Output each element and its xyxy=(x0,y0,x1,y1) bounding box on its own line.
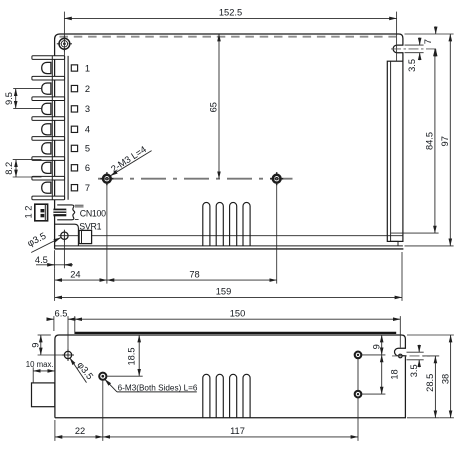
svg-text:150: 150 xyxy=(230,308,246,318)
svg-text:117: 117 xyxy=(230,426,245,436)
svg-text:6-M3(Both Sides) L=6: 6-M3(Both Sides) L=6 xyxy=(118,383,198,392)
svg-text:2: 2 xyxy=(85,84,90,94)
svg-text:28.5: 28.5 xyxy=(425,374,435,392)
svg-text:7: 7 xyxy=(423,39,433,44)
svg-text:18.5: 18.5 xyxy=(127,347,137,365)
svg-text:4.5: 4.5 xyxy=(35,255,48,265)
svg-text:10 max.: 10 max. xyxy=(26,360,54,369)
svg-text:78: 78 xyxy=(189,269,199,279)
svg-text:24: 24 xyxy=(70,269,80,279)
svg-text:9: 9 xyxy=(371,344,381,349)
svg-text:7: 7 xyxy=(85,183,90,193)
svg-text:1 2: 1 2 xyxy=(23,206,33,219)
svg-text:152.5: 152.5 xyxy=(219,7,242,17)
svg-text:9.5: 9.5 xyxy=(4,92,14,105)
svg-text:3: 3 xyxy=(85,104,90,114)
svg-text:8.2: 8.2 xyxy=(4,162,14,175)
svg-text:38: 38 xyxy=(440,374,450,384)
svg-text:CN100: CN100 xyxy=(80,208,106,218)
svg-text:22: 22 xyxy=(75,426,85,436)
svg-text:6.5: 6.5 xyxy=(55,308,68,318)
svg-text:6: 6 xyxy=(85,163,90,173)
svg-text:18: 18 xyxy=(389,369,399,379)
svg-text:3.5: 3.5 xyxy=(409,364,419,377)
svg-text:97: 97 xyxy=(440,136,450,146)
svg-text:84.5: 84.5 xyxy=(425,132,435,150)
svg-text:159: 159 xyxy=(216,287,232,297)
svg-text:1: 1 xyxy=(85,63,90,73)
svg-text:3.5: 3.5 xyxy=(407,59,417,72)
svg-text:4: 4 xyxy=(85,125,90,135)
svg-text:5: 5 xyxy=(85,144,90,154)
svg-text:65: 65 xyxy=(209,102,219,112)
svg-text:9: 9 xyxy=(31,343,41,348)
